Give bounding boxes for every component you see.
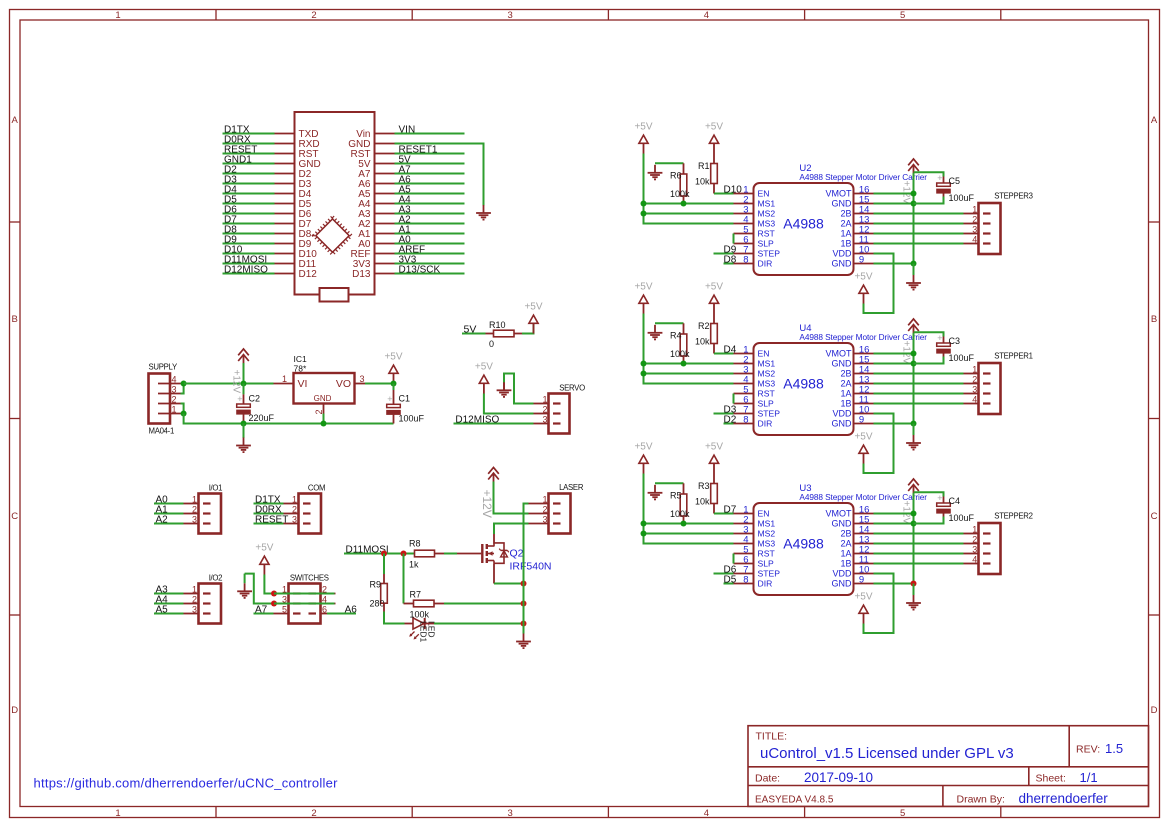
- power flag +5V (U4 logic rail): [634, 282, 652, 314]
- I/O1 inner pin dash 3: [203, 522, 211, 524]
- svg-text:1: 1: [542, 395, 547, 405]
- svg-text:VMOT: VMOT: [826, 509, 853, 519]
- R3 top lead: [713, 474, 715, 484]
- U3 pin 1 (EN): [734, 513, 754, 515]
- ground (U4 GND): [906, 435, 921, 450]
- LASER pin 1: [529, 503, 549, 505]
- svg-text:2: 2: [311, 808, 316, 819]
- svg-text:+5V: +5V: [634, 122, 652, 133]
- svg-text:100uF: 100uF: [949, 193, 975, 203]
- svg-text:+12V: +12V: [231, 370, 242, 394]
- svg-text:4: 4: [704, 808, 709, 819]
- svg-text:GND: GND: [832, 419, 853, 429]
- svg-text:R9: R9: [370, 579, 382, 589]
- junction SWITCHES pin3: [271, 601, 277, 607]
- svg-text:4: 4: [704, 10, 709, 21]
- resistor body R6: [680, 174, 687, 196]
- I/O1 inner pin dash 2: [203, 512, 211, 514]
- svg-text:MA04-1: MA04-1: [149, 427, 175, 436]
- svg-text:1.5: 1.5: [1105, 741, 1123, 756]
- svg-text:A4988: A4988: [783, 536, 824, 552]
- svg-text:1: 1: [542, 495, 547, 505]
- wire GND bus to ground: [523, 624, 525, 634]
- U3 pin 14 (2B): [854, 533, 874, 535]
- U3 pin 16 (VMOT): [854, 513, 874, 515]
- svg-text:C3: C3: [949, 336, 961, 346]
- svg-text:3: 3: [192, 605, 197, 615]
- wire net 3V3: [395, 263, 465, 265]
- junction MS2 rail: [641, 371, 647, 377]
- junction R9 top: [381, 551, 387, 557]
- STEPPER2 inner pin dash 4: [983, 562, 991, 564]
- wire net A5: [154, 613, 184, 615]
- wire VMOT row: [874, 513, 914, 515]
- wire net D11MOSI: [223, 263, 275, 265]
- U2 pin 12 (1A): [854, 233, 874, 235]
- svg-text:3: 3: [360, 374, 365, 384]
- wire SERVO pin1 to ground: [504, 374, 534, 404]
- svg-text:MS2: MS2: [758, 209, 776, 219]
- junction SWITCHES pin1: [271, 591, 277, 597]
- U4 pin 10 (VDD): [854, 413, 874, 415]
- wire net A7: [395, 173, 465, 175]
- wire VMOT row: [874, 353, 914, 355]
- svg-text:EN: EN: [758, 349, 770, 359]
- ground (supply GND): [236, 438, 251, 453]
- wire MS1 row: [644, 523, 734, 525]
- wire C4 top: [914, 492, 944, 496]
- COM pin 2: [284, 513, 299, 515]
- wire +5V rail to U3 MS pins: [644, 474, 734, 544]
- Q2 source lead: [493, 563, 495, 583]
- svg-text:3: 3: [972, 545, 977, 555]
- power flag +5V (U3 VDD): [854, 592, 872, 624]
- C5 bottom lead: [943, 190, 945, 197]
- U1 right pin A7: [375, 173, 395, 175]
- Q2 drain lead: [493, 534, 495, 544]
- junction GND pin9: [911, 581, 917, 587]
- U1 right pin GND: [375, 143, 395, 145]
- wire STEPPER1 signal 2: [874, 383, 964, 385]
- svg-text:SLP: SLP: [758, 239, 775, 249]
- svg-text:VO: VO: [336, 378, 351, 390]
- wire net GND1: [223, 163, 275, 165]
- junction GND at supply: [181, 411, 187, 417]
- wire net A6: [395, 183, 465, 185]
- wire R3 to EN pin: [714, 513, 734, 515]
- svg-text:A2: A2: [156, 515, 169, 526]
- junction R7 gnd: [521, 601, 527, 607]
- U4 pin 15 (GND): [854, 363, 874, 365]
- U3 pin 12 (1A): [854, 553, 874, 555]
- LASER inner pin dash 2: [553, 512, 561, 514]
- connector SWITCHES outline: [289, 584, 321, 624]
- U3 pin 4 (MS3): [734, 543, 754, 545]
- svg-text:3: 3: [172, 385, 177, 395]
- U2 pin 3 (MS2): [734, 213, 754, 215]
- svg-text:1: 1: [192, 585, 197, 595]
- svg-text:100uF: 100uF: [949, 513, 975, 523]
- SERVO inner pin dash 3: [553, 422, 561, 424]
- wire SWITCHES pin6 to A6: [327, 613, 356, 615]
- U3 pin 13 (2A): [854, 543, 874, 545]
- svg-text:D4: D4: [724, 345, 737, 356]
- transistor Q2 IRF540N: [482, 543, 509, 563]
- SERVO inner pin dash 1: [553, 402, 561, 404]
- frame row letters: [11, 115, 1158, 716]
- svg-text:SLP: SLP: [758, 559, 775, 569]
- wire D2 to DIR: [724, 423, 734, 425]
- power flag +5V (switches pullup): [255, 543, 273, 575]
- U1 left pin TXD: [275, 133, 295, 135]
- I/O1 inner pin dash 1: [203, 502, 211, 504]
- svg-text:A: A: [1151, 115, 1158, 126]
- svg-text:STEPPER3: STEPPER3: [994, 192, 1032, 201]
- wire net A4: [154, 603, 184, 605]
- wire STEPPER3 signal 2: [874, 223, 964, 225]
- title block Sheet separator: [1028, 767, 1030, 786]
- STEPPER1 inner pin dash 1: [983, 372, 991, 374]
- capacitor C4: [936, 493, 951, 514]
- wire R7 to GND bus: [444, 603, 524, 605]
- wire net RESET: [254, 523, 284, 525]
- connector STEPPER2 outline: [979, 523, 1001, 574]
- wire C2 bottom to ground: [243, 424, 245, 439]
- title block REV separator: [1068, 726, 1070, 767]
- svg-text:+5V: +5V: [634, 442, 652, 453]
- svg-text:2A: 2A: [840, 539, 851, 549]
- U2 pin 15 (GND): [854, 203, 874, 205]
- svg-text:+5V: +5V: [524, 302, 542, 313]
- U1 left pin D3: [275, 183, 295, 185]
- ground (servo): [497, 382, 512, 397]
- U1 right pin A1: [375, 233, 395, 235]
- power flag +12V (main supply): [238, 349, 249, 363]
- svg-text:R5: R5: [670, 491, 682, 501]
- U2 pin 5 (RST): [734, 233, 754, 235]
- frame column numbers: [115, 10, 905, 819]
- R5 bottom lead: [683, 516, 685, 524]
- svg-text:RST: RST: [758, 389, 776, 399]
- U3 pin 8 (DIR): [734, 583, 754, 585]
- STEPPER1 pin 2: [964, 383, 979, 385]
- svg-text:5: 5: [900, 10, 905, 21]
- wire +5V rail to U2 MS pins: [644, 154, 734, 224]
- wire net VIN: [395, 133, 465, 135]
- wire STEPPER1 signal 1: [874, 373, 964, 375]
- wire net 5V: [395, 163, 465, 165]
- wire net D1TX: [254, 503, 284, 505]
- wire STEPPER2 signal 2: [874, 543, 964, 545]
- svg-text:A5: A5: [156, 605, 169, 616]
- I/O2 pin 3: [184, 613, 199, 615]
- U3 pin 6 (SLP): [734, 563, 754, 565]
- R6 bottom lead: [683, 196, 685, 204]
- wire net A2: [154, 523, 184, 525]
- svg-text:R6: R6: [670, 171, 682, 181]
- wire net D7: [223, 223, 275, 225]
- svg-text:78*: 78*: [294, 363, 307, 373]
- svg-text:+5V: +5V: [255, 543, 273, 554]
- svg-text:+5V: +5V: [705, 122, 723, 133]
- STEPPER1 inner pin dash 2: [983, 382, 991, 384]
- svg-text:EN: EN: [758, 189, 770, 199]
- svg-text:+5V: +5V: [475, 362, 493, 373]
- power flag +5V (servo power): [475, 362, 493, 394]
- svg-text:D8: D8: [724, 255, 737, 266]
- SWITCHES inner pin dash 2: [309, 592, 317, 594]
- svg-text:C4: C4: [949, 496, 961, 506]
- wire GND pin9: [874, 583, 914, 585]
- svg-text:GND: GND: [832, 359, 853, 369]
- wire IC1 VO to +5V: [365, 383, 394, 385]
- junction GND pin15: [911, 201, 917, 207]
- svg-text:VMOT: VMOT: [826, 189, 853, 199]
- svg-text:REV:: REV:: [1076, 744, 1100, 756]
- module U1 Arduino Nano outline: [295, 112, 375, 295]
- U3 pin 15 (GND): [854, 523, 874, 525]
- R10 right lead: [514, 333, 522, 335]
- svg-text:VDD: VDD: [832, 409, 852, 419]
- U4 pin 3 (MS2): [734, 373, 754, 375]
- STEPPER3 pin 2: [964, 223, 979, 225]
- I/O2 pin 2: [184, 603, 199, 605]
- wire RST-SLP tie: [733, 234, 735, 244]
- U1 right pin A2: [375, 223, 395, 225]
- wire C3 bottom to GND: [914, 357, 944, 364]
- wire +5V to C1: [393, 384, 395, 391]
- IC1 pin 2: [323, 404, 325, 414]
- frame row ticks left/right: [10, 222, 1160, 615]
- U1 right pin A0: [375, 243, 395, 245]
- svg-text:VMOT: VMOT: [826, 349, 853, 359]
- svg-text:DIR: DIR: [758, 579, 773, 589]
- svg-text:+: +: [937, 333, 942, 343]
- svg-text:SLP: SLP: [758, 399, 775, 409]
- R2 bottom lead: [713, 344, 715, 354]
- U3 pin 7 (STEP): [734, 573, 754, 575]
- wire VMOT vertical: [913, 333, 915, 424]
- R5 pulldown: ground wire: [655, 482, 684, 484]
- U1 left pin D9: [275, 243, 295, 245]
- C2 top lead: [243, 394, 245, 404]
- svg-text:5: 5: [900, 808, 905, 819]
- SWITCHES pin 5: [274, 613, 289, 615]
- svg-text:1A: 1A: [840, 549, 851, 559]
- svg-text:+5V: +5V: [634, 282, 652, 293]
- svg-text:GND: GND: [832, 199, 853, 209]
- svg-text:+5V: +5V: [705, 442, 723, 453]
- U1 right pin Vin: [375, 133, 395, 135]
- U3 pin 3 (MS2): [734, 533, 754, 535]
- wire STEPPER3 signal 4: [874, 243, 964, 245]
- wire pin9 to ground: [913, 424, 915, 436]
- LASER pin 2: [529, 513, 549, 515]
- svg-text:GND: GND: [832, 579, 853, 589]
- wire net D8: [223, 233, 275, 235]
- junction MS1 rail: [641, 521, 647, 527]
- svg-text:1A: 1A: [840, 229, 851, 239]
- wire STEPPER2 signal 4: [874, 563, 964, 565]
- svg-text:MS1: MS1: [758, 359, 776, 369]
- wire +12V rail to IC1: [184, 383, 274, 385]
- svg-text:+: +: [387, 394, 392, 404]
- svg-text:+12V: +12V: [901, 501, 912, 525]
- resistor body R1: [711, 164, 718, 184]
- wire MS2 row: [644, 213, 734, 215]
- U4 pin 8 (DIR): [734, 423, 754, 425]
- U1 left pin GND: [275, 163, 295, 165]
- wire +5V rail to U4 MS pins: [644, 314, 734, 384]
- svg-text:MS1: MS1: [758, 199, 776, 209]
- junction VMOT: [911, 351, 917, 357]
- wire D8 to DIR: [724, 263, 734, 265]
- svg-text:3: 3: [192, 515, 197, 525]
- resistor R9 body: [381, 584, 388, 604]
- R4 pulldown: ground wire: [655, 322, 684, 324]
- wire LASER pin1 to GND bus: [524, 504, 529, 624]
- svg-text:MS1: MS1: [758, 519, 776, 529]
- svg-text:VDD: VDD: [832, 249, 852, 259]
- wire MS1 row: [644, 363, 734, 365]
- svg-text:GND: GND: [832, 259, 853, 269]
- svg-text:STEP: STEP: [758, 249, 781, 259]
- U1 left pin D10: [275, 253, 295, 255]
- P_SUPPLY pin 3: [158, 393, 181, 395]
- wire MS2 row: [644, 533, 734, 535]
- U2 pin 4 (MS3): [734, 223, 754, 225]
- R1 bottom lead: [713, 184, 715, 194]
- capacitor C3: [936, 333, 951, 354]
- junction +12V at supply: [181, 381, 187, 387]
- U4 pin 2 (MS1): [734, 363, 754, 365]
- U2 pin 2 (MS1): [734, 203, 754, 205]
- wire R8 to Q2 gate: [444, 553, 457, 555]
- wire STEPPER3 signal 3: [874, 233, 964, 235]
- wire STEPPER3 signal 1: [874, 213, 964, 215]
- svg-text:STEPPER2: STEPPER2: [994, 512, 1032, 521]
- svg-text:2B: 2B: [840, 369, 851, 379]
- svg-text:2: 2: [192, 595, 197, 605]
- wire VMOT vertical: [913, 173, 915, 264]
- svg-text:+: +: [237, 394, 242, 404]
- wire net A0: [395, 243, 465, 245]
- wire SUPPLY pins 4-3 tie (+12V): [181, 384, 184, 394]
- power flag +5V (U2 VDD): [854, 272, 872, 304]
- svg-text:DIR: DIR: [758, 259, 773, 269]
- svg-text:10k: 10k: [695, 177, 710, 187]
- svg-text:A6: A6: [345, 605, 358, 616]
- wire D9 to STEP: [714, 253, 734, 255]
- R5 top lead: [683, 483, 685, 494]
- svg-text:+: +: [937, 493, 942, 503]
- capacitor C1: [386, 394, 401, 415]
- U1 right pin 5V: [375, 163, 395, 165]
- svg-text:STEPPER1: STEPPER1: [994, 352, 1032, 361]
- svg-text:2: 2: [542, 505, 547, 515]
- wire net D3: [223, 183, 275, 185]
- svg-text:2: 2: [972, 535, 977, 545]
- R6 top lead: [683, 163, 685, 174]
- I/O2 inner pin dash 1: [203, 592, 211, 594]
- U1 left pin D7: [275, 223, 295, 225]
- power flag +5V (U3 logic rail): [634, 442, 652, 474]
- junction VMOT: [911, 511, 917, 517]
- LASER inner pin dash 1: [553, 502, 561, 504]
- svg-text:+5V: +5V: [384, 352, 402, 363]
- wire D12MISO to SERVO pin3: [454, 423, 534, 425]
- wire LASER pin3 to Q2 drain: [494, 524, 529, 535]
- wire GND pin9: [874, 423, 914, 425]
- power flag +5V (U4 EN pullup): [705, 282, 723, 314]
- svg-text:D: D: [11, 705, 18, 716]
- svg-text:EN: EN: [758, 509, 770, 519]
- SERVO inner pin dash 2: [553, 412, 561, 414]
- ground (R4 ground): [648, 325, 663, 340]
- connector SERVO outline: [549, 394, 570, 434]
- module U2 A4988 outline: [754, 183, 854, 275]
- svg-text:0: 0: [489, 339, 494, 349]
- svg-text:STEP: STEP: [758, 569, 781, 579]
- capacitor C2: [236, 394, 251, 415]
- wire SWITCHES pin1 to pin2 through: [274, 593, 335, 595]
- svg-text:3: 3: [542, 515, 547, 525]
- svg-text:8: 8: [743, 415, 748, 426]
- wire pin9 to ground: [913, 584, 915, 596]
- connector I/O1 outline: [199, 494, 222, 534]
- regulator IC1 outline: [294, 373, 355, 404]
- wire +5V to SWITCHES pin1: [264, 575, 273, 594]
- wire +12V flag to rail: [243, 363, 245, 384]
- resistor body R3: [711, 484, 718, 504]
- svg-text:280: 280: [370, 598, 385, 608]
- wire net A1: [154, 513, 184, 515]
- SERVO pin 3: [534, 423, 549, 425]
- wire net A0: [154, 503, 184, 505]
- svg-text:2A: 2A: [840, 219, 851, 229]
- svg-text:4: 4: [972, 395, 977, 405]
- U4 pin 1 (EN): [734, 353, 754, 355]
- R10 left lead: [486, 333, 494, 335]
- wire D3 to STEP: [714, 413, 734, 415]
- svg-text:+12V: +12V: [901, 341, 912, 365]
- STEPPER2 inner pin dash 2: [983, 542, 991, 544]
- U1 right pin A6: [375, 183, 395, 185]
- wire GND row pin15: [874, 363, 914, 365]
- wire net A3: [154, 593, 184, 595]
- svg-text:R1: R1: [698, 161, 710, 171]
- SERVO pin 2: [534, 413, 549, 415]
- svg-text:RST: RST: [758, 229, 776, 239]
- wire C5 bottom to GND: [914, 197, 944, 204]
- svg-text:SERVO: SERVO: [559, 384, 585, 393]
- svg-text:D: D: [1151, 705, 1158, 716]
- U3 pin 10 (VDD): [854, 573, 874, 575]
- junction GND pin9: [911, 261, 917, 267]
- R7 left lead: [404, 603, 414, 605]
- power flag +12V (laser power): [488, 467, 499, 481]
- wire D5 to DIR: [724, 583, 734, 585]
- wire STEPPER1 signal 3: [874, 393, 964, 395]
- wire net A4: [395, 203, 465, 205]
- svg-text:MS2: MS2: [758, 369, 776, 379]
- ground (switches): [237, 583, 252, 598]
- U1 right pin REF: [375, 253, 395, 255]
- wire C5 top: [914, 172, 944, 176]
- svg-text:C5: C5: [949, 176, 961, 186]
- U4 pin 7 (STEP): [734, 413, 754, 415]
- U2 pin 14 (2B): [854, 213, 874, 215]
